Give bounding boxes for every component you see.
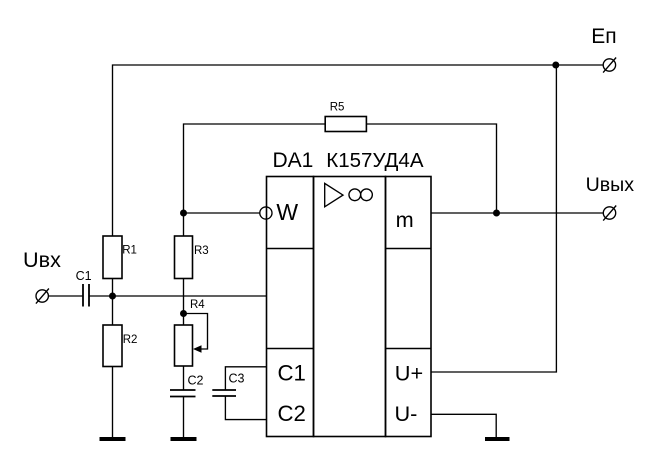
wire C3 top to pin C1	[225, 367, 266, 390]
junction R4 wiper tap	[180, 310, 187, 317]
wire R5 to output branch	[366, 124, 496, 213]
svg-text:К157УД4А: К157УД4А	[326, 149, 424, 172]
wire R4 to C2	[183, 366, 185, 390]
wire input terminal to C1	[48, 295, 83, 297]
svg-text:m: m	[396, 207, 414, 232]
resistor R2	[103, 325, 122, 367]
op-amp infinity symbol	[349, 189, 372, 201]
op-amp middle column	[314, 177, 386, 437]
svg-text:U-: U-	[395, 401, 418, 426]
capacitor C2	[170, 390, 196, 397]
junction W node	[180, 210, 187, 217]
op-amp right column	[386, 177, 432, 437]
wire C3 bottom to pin C2	[225, 396, 266, 420]
wire U+ to top rail	[431, 65, 556, 372]
wire C1 to op-amp input pin	[89, 295, 267, 297]
junction feedback at output	[493, 210, 500, 217]
svg-text:C3: C3	[229, 371, 245, 385]
resistor R1	[103, 236, 122, 279]
terminal Ep	[603, 58, 616, 73]
wire W node to W pin circle	[184, 212, 260, 214]
divider left column row1	[267, 248, 314, 250]
junction input node at R1/R2	[109, 293, 116, 300]
svg-text:C2: C2	[188, 373, 204, 387]
resistor R3	[175, 236, 193, 279]
svg-text:C1: C1	[278, 360, 306, 385]
svg-text:R2: R2	[123, 334, 138, 346]
svg-text:Еп: Еп	[591, 25, 616, 48]
wire output m to Uvyx terminal	[431, 212, 603, 214]
wire R1 to node	[112, 279, 114, 326]
wire U- to ground	[431, 414, 496, 437]
potentiometer R4	[175, 314, 208, 367]
wire top rail from R1 branch to Ep terminal	[113, 65, 604, 236]
wire C2 to ground	[183, 397, 185, 438]
op-amp DA1 K157UD4A body left column	[267, 177, 314, 437]
svg-text:R1: R1	[122, 244, 137, 256]
svg-text:DA1: DA1	[273, 149, 314, 172]
ground under R2	[100, 437, 126, 441]
junction at Ep rail x=556	[552, 62, 559, 69]
divider left column row2	[267, 348, 314, 350]
capacitor C1	[83, 284, 89, 307]
terminal Uvyx	[603, 206, 616, 221]
svg-text:U+: U+	[395, 361, 423, 386]
svg-text:R4: R4	[190, 299, 205, 311]
wire R3 to R4 crossing input line	[183, 279, 185, 326]
wire W node down to R3	[183, 213, 185, 236]
ground under C2	[171, 437, 197, 441]
svg-text:Uвых: Uвых	[586, 174, 635, 196]
divider right column row2	[386, 348, 432, 350]
pin circle W input	[260, 207, 272, 219]
ground under U-	[485, 437, 510, 441]
divider right column row1	[386, 248, 432, 250]
op-amp triangle symbol	[325, 183, 343, 206]
capacitor C3	[212, 390, 236, 396]
svg-text:R3: R3	[194, 245, 209, 257]
svg-text:W: W	[276, 199, 298, 225]
svg-text:R5: R5	[330, 102, 345, 114]
svg-text:Uвх: Uвх	[23, 247, 61, 272]
wire feedback left vertical to W node	[184, 124, 326, 213]
wire R2 to ground	[112, 367, 114, 438]
svg-text:C2: C2	[278, 401, 306, 426]
resistor R5	[325, 117, 366, 132]
terminal Uvx	[36, 289, 49, 304]
svg-text:C1: C1	[76, 269, 92, 283]
